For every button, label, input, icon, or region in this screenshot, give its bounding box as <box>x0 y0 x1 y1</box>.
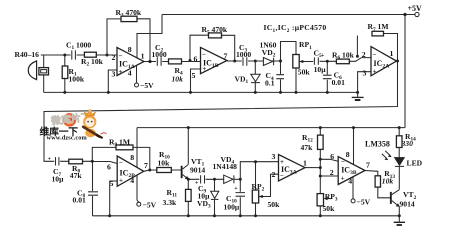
node: R2/R3/IC1A pin2 junction <box>106 54 109 57</box>
svg-text:LM358: LM358 <box>365 140 390 149</box>
wire: IC1A pin 4 stub to -5V terminal <box>136 66 138 83</box>
svg-text:6: 6 <box>107 163 111 172</box>
wire: IC2A pin 3 to ground symbol <box>358 72 371 93</box>
node: lower rail VT2 emitter / ground <box>398 214 401 217</box>
wire: VT1 emitter to C9 to VD4 <box>188 178 223 180</box>
lower ground rail <box>93 215 400 217</box>
ground rail (upper section) <box>44 91 358 93</box>
wire: +5V riser down right side <box>404 15 406 128</box>
wire: R14 top to +5V low rail <box>398 128 400 136</box>
node: VD1 tap <box>254 60 257 63</box>
svg-text:7: 7 <box>366 161 370 170</box>
svg-text:−: − <box>202 51 206 59</box>
svg-text:1: 1 <box>390 49 394 58</box>
wire: C7 to R8 to IC2B pin 6 <box>59 161 117 163</box>
svg-text:2: 2 <box>362 50 366 59</box>
node: VD4 cathode / C10 junction <box>239 178 242 181</box>
wire: R3 feedback top right to IC1A output <box>137 19 150 62</box>
wire: IC2B pin 4 stub to -5V terminal <box>137 175 139 202</box>
capacitor C2 <box>156 57 162 67</box>
wire: RP2 vertical from pin3 line to ground rail <box>255 162 257 216</box>
wire: IC1B output through C3, VD2 to RP1 branch <box>227 60 282 62</box>
svg-text:−5V: −5V <box>140 81 154 90</box>
node: +5V low rail R12 <box>319 126 322 129</box>
op-amp IC3A <box>279 155 306 182</box>
svg-text:0.01: 0.01 <box>73 196 86 205</box>
svg-text:5: 5 <box>192 71 196 80</box>
svg-text:+: + <box>341 174 345 182</box>
op-amp IC1B <box>201 47 228 73</box>
wire: RP1 wiper to C5 <box>299 61 313 63</box>
node: lower rail C10 <box>239 214 242 217</box>
capacitor C10 <box>235 192 246 197</box>
svg-text:6: 6 <box>194 54 198 63</box>
svg-text:5: 5 <box>110 179 114 188</box>
resistor R8 <box>69 159 83 164</box>
svg-text:47k: 47k <box>70 171 83 180</box>
svg-text:+: + <box>234 186 238 192</box>
wire: node D to IC3B pin 2 <box>320 175 338 177</box>
op-amp IC3B <box>338 157 365 185</box>
node: ground rail IC1B pin5 <box>189 91 192 94</box>
capacitor C1 <box>71 50 77 60</box>
wire: R12 top to +5V low rail <box>319 128 321 136</box>
diode VD3 <box>211 191 219 199</box>
node: +5V low rail R14 <box>398 126 401 129</box>
wire: R14 bottom to LED anode <box>398 148 400 158</box>
svg-text:9014: 9014 <box>190 166 205 175</box>
wire: R9 feedback right vertical to IC2B output <box>133 147 150 170</box>
wire: node D to IC3B pin 6 <box>320 159 338 161</box>
node: IC3B pin 2 tap <box>319 175 322 178</box>
node: IC1B output / R5 <box>233 60 236 63</box>
node: R8/R9/C8/IC2B pin6 junction <box>91 160 94 163</box>
transistor VT1 <box>181 165 189 180</box>
svg-text:50k: 50k <box>268 200 281 209</box>
wire: C6 branch down to ground rail <box>326 61 328 92</box>
svg-text:9014: 9014 <box>400 199 415 208</box>
svg-text:330: 330 <box>401 139 414 148</box>
svg-text:3.3k: 3.3k <box>163 198 177 207</box>
node: IC3A output tap <box>319 166 322 169</box>
node: R7 / IC2A pin2 <box>356 55 359 58</box>
wire: C4 branch down to ground rail <box>280 61 282 92</box>
svg-text:47k: 47k <box>301 143 314 152</box>
svg-text:1: 1 <box>303 158 307 167</box>
resistor R9 <box>116 145 133 150</box>
op-amp IC1A <box>117 48 144 76</box>
ground symbol (lower, at VT2 emitter) <box>394 216 405 225</box>
node: ground rail C4 <box>279 91 282 94</box>
resistor R10 <box>157 168 172 173</box>
wire: IC1B pin 5 stub to ground <box>191 69 201 92</box>
svg-text:−5V: −5V <box>143 200 157 209</box>
wire: VT1 collector riser to +5V low rail <box>187 128 189 165</box>
wire: RP3 bottom to ground rail <box>319 206 321 216</box>
potentiometer RP2 <box>252 190 262 203</box>
resistor R12 <box>318 135 324 149</box>
wire: VD1 branch down to ground rail <box>254 61 256 92</box>
svg-text:3: 3 <box>112 70 116 79</box>
svg-text:www.dzsc.com: www.dzsc.com <box>47 135 88 142</box>
svg-text:R3 470k: R3 470k <box>116 8 142 19</box>
node: +5V low rail IC3B pin8 <box>352 126 355 129</box>
potentiometer RP3 <box>317 194 328 206</box>
ground symbol (upper, at IC2A pin 3) <box>352 92 364 100</box>
wire: VT2 emitter down to ground <box>398 207 400 216</box>
wire: RP1 bottom to ground rail <box>295 68 297 92</box>
svg-text:0.1: 0.1 <box>265 79 275 88</box>
node: ground rail end at ground symbol <box>356 91 359 94</box>
node: IC2B output / R9 <box>148 169 151 172</box>
wire: IC2B pin 8 stub up to +5V low rail <box>136 128 138 168</box>
WATERMARK <box>40 109 107 142</box>
svg-text:+: + <box>321 53 325 59</box>
wire: R5 feedback left vertical <box>190 35 209 60</box>
node: VT1 emitter junction <box>187 178 190 181</box>
wire: IC2B output through R10 to VT1 base <box>144 170 181 171</box>
wire: IC3B output to R13 to VT2 base <box>365 171 390 198</box>
resistor R6 <box>336 59 349 64</box>
node: IC3B pin 6 tap <box>319 158 322 161</box>
svg-text:3: 3 <box>272 152 276 161</box>
wire: C5 to R6 to IC2A pin 2 <box>318 58 371 62</box>
wire: R3 feedback left vertical <box>107 19 121 55</box>
node: input/R1 junction <box>63 54 66 57</box>
wire: R9 feedback left vertical <box>92 147 116 161</box>
wire: R5 feedback right to IC1B output <box>222 35 235 61</box>
svg-text:+: + <box>373 68 377 76</box>
svg-text:100k: 100k <box>69 75 85 84</box>
svg-text:8: 8 <box>128 45 132 54</box>
svg-text:−: − <box>373 51 377 59</box>
wire: R1 top stub <box>64 55 66 66</box>
capacitor C6 <box>323 75 333 80</box>
svg-text:1N4148: 1N4148 <box>213 162 238 171</box>
svg-text:8: 8 <box>346 150 350 159</box>
resistor R11 <box>186 189 192 201</box>
+5V terminal circle <box>415 12 419 16</box>
wire: node D vertical (R12 to RP3) <box>319 149 321 193</box>
node: lower rail RP2 <box>254 214 257 217</box>
svg-text:50k: 50k <box>323 204 336 213</box>
node: ground rail IC1A pin3 <box>107 91 110 94</box>
svg-text:+: + <box>119 68 123 76</box>
wire: RP2 wiper to IC3A pin 2 <box>259 174 279 196</box>
svg-text:4: 4 <box>348 176 352 185</box>
svg-text:R2 10k: R2 10k <box>81 57 104 68</box>
resistor R1 <box>62 66 68 79</box>
svg-text:8: 8 <box>130 153 134 162</box>
svg-text:0.01: 0.01 <box>332 78 345 87</box>
wire: transducer bottom stub to ground rail <box>43 75 45 93</box>
svg-text:LED: LED <box>407 159 423 168</box>
transducer R40-16 horn <box>28 60 36 80</box>
capacitor C9 (polarized) <box>199 175 205 185</box>
wire: R1 bottom stub <box>64 79 66 93</box>
svg-text:1000: 1000 <box>236 50 251 59</box>
node: ground rail VD1 <box>254 91 257 94</box>
capacitor C7 (polarized) <box>54 156 60 166</box>
node: RP2 top tap <box>254 160 257 163</box>
node: ground rail RP1 <box>295 91 298 94</box>
op-amp IC1A -5V terminal <box>135 83 139 87</box>
wire: IC2A output down and across to lower section <box>44 61 398 161</box>
node: lower rail IC2B pin5 <box>108 214 111 217</box>
svg-text:6: 6 <box>330 152 334 161</box>
svg-text:+: + <box>48 157 52 163</box>
svg-text:10k: 10k <box>382 177 394 186</box>
svg-text:−5V: −5V <box>357 198 371 207</box>
svg-text:2: 2 <box>112 53 116 62</box>
wire: IC1A output to C2 and R4 to IC1B pin 6 <box>144 61 201 63</box>
wire: VT1 emitter node down through R11 to ground <box>187 179 189 216</box>
svg-text:−: − <box>119 51 123 59</box>
svg-text:R40–16: R40–16 <box>15 50 40 59</box>
resistor R3 <box>121 16 137 21</box>
node: ground rail C6 <box>326 91 329 94</box>
wire: R7 feedback right vertical to IC2A output <box>384 34 398 62</box>
svg-text:100μ: 100μ <box>224 203 240 212</box>
resistor R13 <box>375 176 380 187</box>
diode VD2 1N60 <box>263 58 273 66</box>
wire: RP3 wiper tail <box>327 198 331 200</box>
wire: LED cathode to VT2 collector <box>398 166 400 189</box>
svg-text:1: 1 <box>141 52 145 61</box>
resistor R5 <box>209 33 222 38</box>
svg-text:3: 3 <box>363 69 367 78</box>
node: lower rail VD3 <box>213 214 216 217</box>
wire: node C up and right to IC3A pin 3 <box>240 162 278 180</box>
wire: VD4 cathode to node C <box>234 178 241 180</box>
svg-text:R5 470k: R5 470k <box>202 25 228 36</box>
op-amp IC2B -5V terminal <box>137 202 141 206</box>
wire: VD3 branch down to ground rail <box>214 179 216 191</box>
node: lower rail RP3 <box>319 214 322 217</box>
transducer R40-16 crystal <box>39 68 49 75</box>
node: +5V low rail VT1 collector <box>187 126 190 129</box>
resistor R2 <box>84 52 96 57</box>
wire: IC1A pin 8 stub to +5V rail riser <box>137 15 162 59</box>
op-amp IC3B -5V terminal <box>351 199 355 203</box>
+5V top rail <box>162 14 415 16</box>
svg-text:2: 2 <box>330 168 334 177</box>
resistor R7 <box>372 31 384 36</box>
potentiometer RP1 <box>293 55 304 69</box>
wire: IC2B pin 5 stub down to lower ground rail <box>110 181 118 216</box>
wire: input line from transducer to IC1A pin 2 <box>41 54 117 56</box>
node: R4/R5/IC1B pin6 junction <box>189 59 192 62</box>
wire: IC1A pin 3 stub to ground <box>108 70 117 92</box>
wire: VD3 cathode to ground rail <box>214 200 216 216</box>
node: C9 / VD3 junction <box>213 178 216 181</box>
+5V lower rail <box>137 127 405 129</box>
node: VD2 cathode / C4 tap <box>279 60 282 63</box>
watermark seal <box>63 113 77 127</box>
svg-text:50k: 50k <box>298 67 311 76</box>
svg-text:+5V: +5V <box>408 4 423 13</box>
svg-text:7: 7 <box>224 52 228 61</box>
capacitor C8 <box>88 191 99 196</box>
svg-text:10k: 10k <box>158 158 171 167</box>
wire: IC3A output to node D <box>305 167 320 169</box>
wire: C10 branch down to ground rail <box>239 179 241 216</box>
svg-text:−: − <box>341 157 345 165</box>
node: IC2A output <box>396 60 399 63</box>
capacitor C4 <box>276 74 285 79</box>
svg-text:2: 2 <box>272 170 276 179</box>
wire: node B up and over to RP1 top <box>281 42 297 62</box>
node: +5V rail tap <box>403 13 406 16</box>
svg-text:7: 7 <box>144 161 148 170</box>
resistor R14 <box>396 136 402 148</box>
node: IC1A output <box>148 60 151 63</box>
svg-text:1000: 1000 <box>152 50 167 59</box>
capacitor C5 (polarized) <box>313 57 319 67</box>
op-amp IC2A <box>371 47 397 76</box>
svg-text:+: + <box>119 177 123 185</box>
svg-text:10μ: 10μ <box>52 174 65 183</box>
transistor VT2 <box>390 190 400 207</box>
wire: R7 feedback left vertical <box>356 36 358 57</box>
diode VD1 <box>251 74 260 82</box>
resistor R4 <box>169 59 182 64</box>
node: lower rail R11 <box>187 214 190 217</box>
svg-text:10μ: 10μ <box>314 65 327 74</box>
node: ground rail R1 <box>63 91 66 94</box>
svg-text:10k: 10k <box>172 74 184 83</box>
wire: transducer top stub <box>43 55 45 68</box>
watermark mascot <box>83 109 106 138</box>
svg-text:−: − <box>119 159 123 167</box>
LED diode <box>382 151 404 167</box>
wire: C8 branch down to lower ground rail <box>92 161 94 216</box>
capacitor C3 <box>242 57 248 67</box>
wire: IC3B pin 4 stub to -5V terminal <box>352 177 354 199</box>
wire: IC3B pin 8 stub up to +5V low rail <box>353 128 355 164</box>
diode VD4 1N4148 <box>224 175 234 183</box>
op-amp IC2B <box>117 156 144 186</box>
node: C5 / C6 tap <box>326 60 329 63</box>
